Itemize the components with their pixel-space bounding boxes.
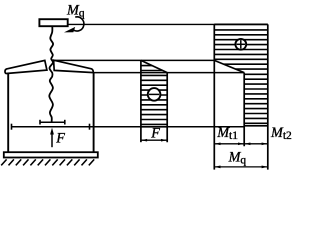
construction line A: lid peak level <box>53 59 214 61</box>
Mt1 dimension arrow <box>214 142 244 145</box>
N diagram left edge <box>140 60 142 142</box>
F dimension arrow <box>141 139 167 142</box>
T diagram left baseline <box>213 24 215 169</box>
T narrow column bottom edge <box>244 125 268 127</box>
drill shaft: wavy line <box>49 26 53 122</box>
construction line B: lid bottom level <box>93 72 244 74</box>
N diagram right edge <box>166 73 168 143</box>
chuck rectangle <box>39 19 67 26</box>
force F arrow (up) <box>50 128 54 148</box>
lid left wedge <box>5 60 47 73</box>
construction line: drill tip level with end ticks <box>12 126 246 128</box>
moment Mq curved arrow <box>64 17 84 33</box>
lid right wedge <box>54 60 94 72</box>
N diagram bottom edge <box>141 126 167 128</box>
T diagram top edge <box>214 23 267 25</box>
workpiece short line with ticks <box>40 121 65 123</box>
pot right wall <box>93 73 95 153</box>
T narrow column left edge <box>243 73 245 147</box>
pot left wall <box>7 73 9 152</box>
T diagram diagonal <box>214 60 244 72</box>
T diagram right edge <box>267 24 269 169</box>
Mt2 dimension arrow <box>244 142 268 145</box>
N diagram hatch <box>141 66 167 125</box>
base plate <box>4 152 98 157</box>
ground hatching <box>1 159 94 165</box>
Mq dimension arrow <box>214 166 267 169</box>
plus sign circle <box>235 39 246 50</box>
svg-text:F: F <box>55 131 65 147</box>
svg-text:F: F <box>150 125 160 141</box>
construction line: chuck level <box>68 23 268 25</box>
T diagram hatch <box>214 30 267 123</box>
minus sign circle <box>148 88 161 101</box>
N diagram diagonal <box>141 60 167 72</box>
